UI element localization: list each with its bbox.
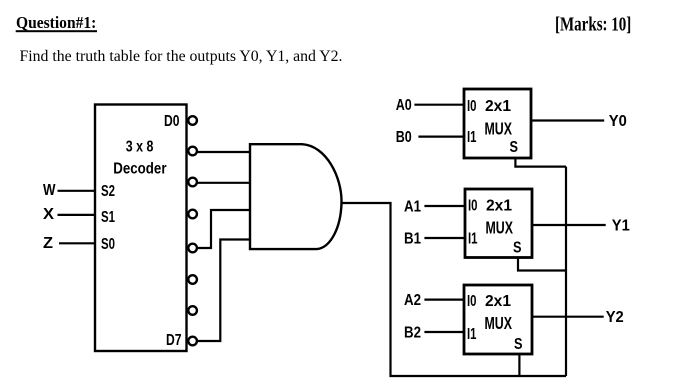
svg-text:I0: I0 [468,198,478,215]
bubble D4 [188,244,197,253]
wire W to S2 [58,190,96,192]
decoder U1 box [95,105,187,352]
svg-text:[Marks: 10]: [Marks: 10] [555,13,631,35]
svg-text:B0: B0 [396,129,412,146]
svg-text:I1: I1 [467,129,477,146]
svg-text:Z: Z [43,235,53,252]
bubble D0 [188,116,197,125]
svg-text:Y2: Y2 [606,309,624,326]
bubble D6 [188,306,197,315]
wire D7 to AND input 4 [198,240,251,342]
svg-text:S0: S0 [101,236,115,253]
svg-text:B2: B2 [404,325,421,342]
svg-text:2x1: 2x1 [485,98,511,115]
svg-text:I0: I0 [467,98,477,115]
bubble D1 [188,147,197,156]
svg-text:D7: D7 [166,332,182,349]
wire B1 to I1 [424,237,465,239]
wire Z to S0 [59,242,95,244]
svg-text:I0: I0 [467,293,477,310]
wire X to S1 [58,214,96,216]
svg-text:S: S [510,139,519,156]
svg-text:D0: D0 [164,113,180,130]
svg-text:Decoder: Decoder [113,160,166,177]
wire select bus vertical [565,167,567,376]
mux U4 box [464,285,532,354]
svg-text:B1: B1 [404,231,421,248]
wire B0 to I1 [418,136,464,138]
bubble D7 [188,337,197,346]
wire B2 to I1 [424,331,464,333]
wire U2 output Y0 [531,119,604,121]
svg-text:Question#1:: Question#1: [16,13,96,32]
svg-text:S: S [514,336,523,353]
wire U4 output Y2 [532,316,604,318]
wire U2 select S [515,158,566,167]
svg-text:MUX: MUX [485,313,513,333]
svg-text:Find the truth table for the o: Find the truth table for the outputs Y0,… [20,48,343,65]
svg-text:3 x 8: 3 x 8 [126,139,154,156]
wire U3 output Y1 [532,224,606,226]
svg-text:S: S [513,240,522,257]
svg-text:MUX: MUX [486,218,514,238]
wire U3 select S [518,258,566,271]
bubble D3 [188,210,197,219]
wire A2 to I0 [424,299,464,301]
wire D1 to AND input 1 [198,151,251,153]
svg-text:X: X [43,206,54,223]
svg-text:W: W [43,182,56,199]
svg-text:S1: S1 [101,209,115,226]
bubble D5 [188,275,197,284]
wire D4 to AND input 3 [198,210,251,248]
AND gate U5 [250,144,342,249]
svg-text:MUX: MUX [485,119,513,139]
svg-text:2x1: 2x1 [486,198,512,215]
mux U3 box [465,189,532,258]
svg-text:A1: A1 [404,199,421,216]
wire D2 to AND input 2 [198,182,251,184]
wire A0 to I0 [414,104,464,106]
svg-text:A0: A0 [396,97,412,114]
svg-text:S2: S2 [101,183,115,200]
wire U4 select S [518,354,520,376]
svg-text:2x1: 2x1 [485,293,511,310]
svg-text:Y0: Y0 [609,113,627,130]
svg-text:Y1: Y1 [612,218,630,235]
svg-text:A2: A2 [404,292,421,309]
wire AND output to bottom bus [342,203,567,376]
bubble D2 [188,178,197,187]
svg-text:I1: I1 [467,326,477,343]
mux U2 box [464,89,531,158]
svg-text:I1: I1 [468,231,478,248]
wire A1 to I0 [424,205,465,207]
heading text Question#1: [16,13,97,32]
